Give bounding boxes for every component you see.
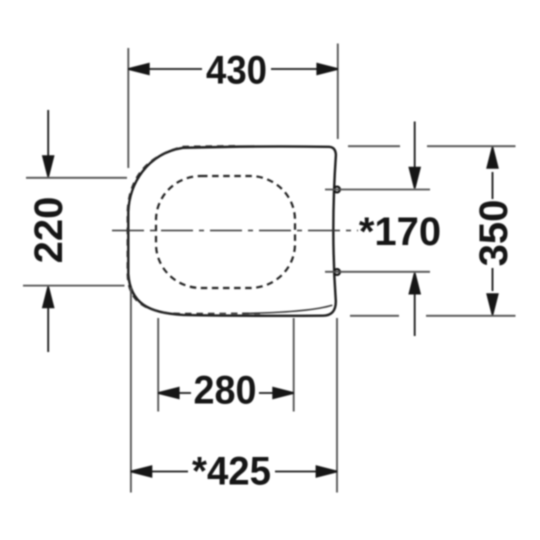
seat bevel line bottom-right <box>242 305 332 313</box>
dim 425: dimension line with arrows <box>131 466 337 476</box>
dim 280: value label <box>194 369 257 413</box>
dim 350: value label (rotated) <box>472 200 516 267</box>
dim 425: left extension line <box>130 288 132 493</box>
dim 280: dimension line with arrows <box>158 388 294 398</box>
svg-text:*425: *425 <box>192 450 271 494</box>
svg-text:220: 220 <box>27 197 71 264</box>
dim 430: value label <box>206 48 267 92</box>
dim 170: bottom extension line through hinge <box>325 271 430 273</box>
dim 425: value label <box>192 450 271 494</box>
dim 280: right extension line <box>293 318 295 412</box>
svg-text:280: 280 <box>194 369 257 413</box>
svg-text:430: 430 <box>206 48 267 92</box>
dim 430: right extension line <box>337 44 339 140</box>
dim 220: top extension line <box>26 177 127 179</box>
dim 350: dimension line with arrows <box>487 147 497 314</box>
center line (horizontal dash-dot axis) <box>112 230 358 232</box>
seat outer contour <box>128 146 336 315</box>
dim 425: right extension line <box>336 318 338 493</box>
hinge hole top <box>334 187 340 193</box>
svg-text:*170: *170 <box>359 210 441 254</box>
dim 280: left extension line <box>157 318 159 412</box>
dim 220: value label (rotated) <box>27 197 71 264</box>
dim 170: value label <box>359 210 441 254</box>
dim 170: dimension line with arrows <box>410 122 420 337</box>
seat inner opening (dashed oval) <box>156 176 295 288</box>
dim 170: top extension line through hinge <box>325 189 430 191</box>
dim 350: top extension line <box>348 145 516 147</box>
svg-text:350: 350 <box>472 200 516 267</box>
dim 430: left extension line <box>127 48 129 168</box>
dim 220: dimension line with arrows <box>43 110 53 352</box>
dim 220: bottom extension line <box>23 285 125 287</box>
seat rim dashed overlay (left/bottom) <box>127 146 260 314</box>
dim 430: dimension line with arrows <box>128 64 337 74</box>
dim 350: bottom extension line <box>350 315 516 317</box>
hinge hole bottom <box>334 269 340 275</box>
